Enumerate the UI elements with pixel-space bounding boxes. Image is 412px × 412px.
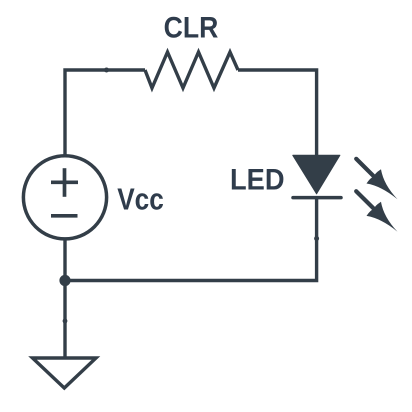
LED light emission arrow 2 (356, 191, 397, 232)
svg-text:LED: LED (230, 162, 284, 195)
plus sign (source polarity +) (51, 180, 78, 184)
LED D1 cathode bar (293, 196, 341, 200)
voltage source Vcc (circle) (23, 156, 106, 239)
node junction dot (Vcc/ground/LED return net) (59, 275, 70, 286)
svg-text:CLR: CLR (164, 11, 219, 45)
wire: source top to resistor CLR left (65, 70, 145, 156)
wire joint nub (ground wire) (63, 319, 68, 324)
wire: LED cathode to junction node (65, 198, 317, 281)
LED light emission arrow 1 (356, 159, 397, 200)
resistor CLR (zigzag body) (145, 52, 238, 88)
wire: source bottom through junction to ground (63, 239, 66, 357)
wire: resistor CLR right to LED anode (238, 70, 317, 156)
wire joint nub (top wire) (104, 68, 109, 73)
wire joint nub (right wire) (314, 236, 319, 241)
LED D1 anode triangle (293, 155, 340, 194)
minus sign (source polarity -) (51, 214, 78, 218)
svg-text:Vcc: Vcc (117, 183, 164, 217)
ground (33, 358, 97, 388)
